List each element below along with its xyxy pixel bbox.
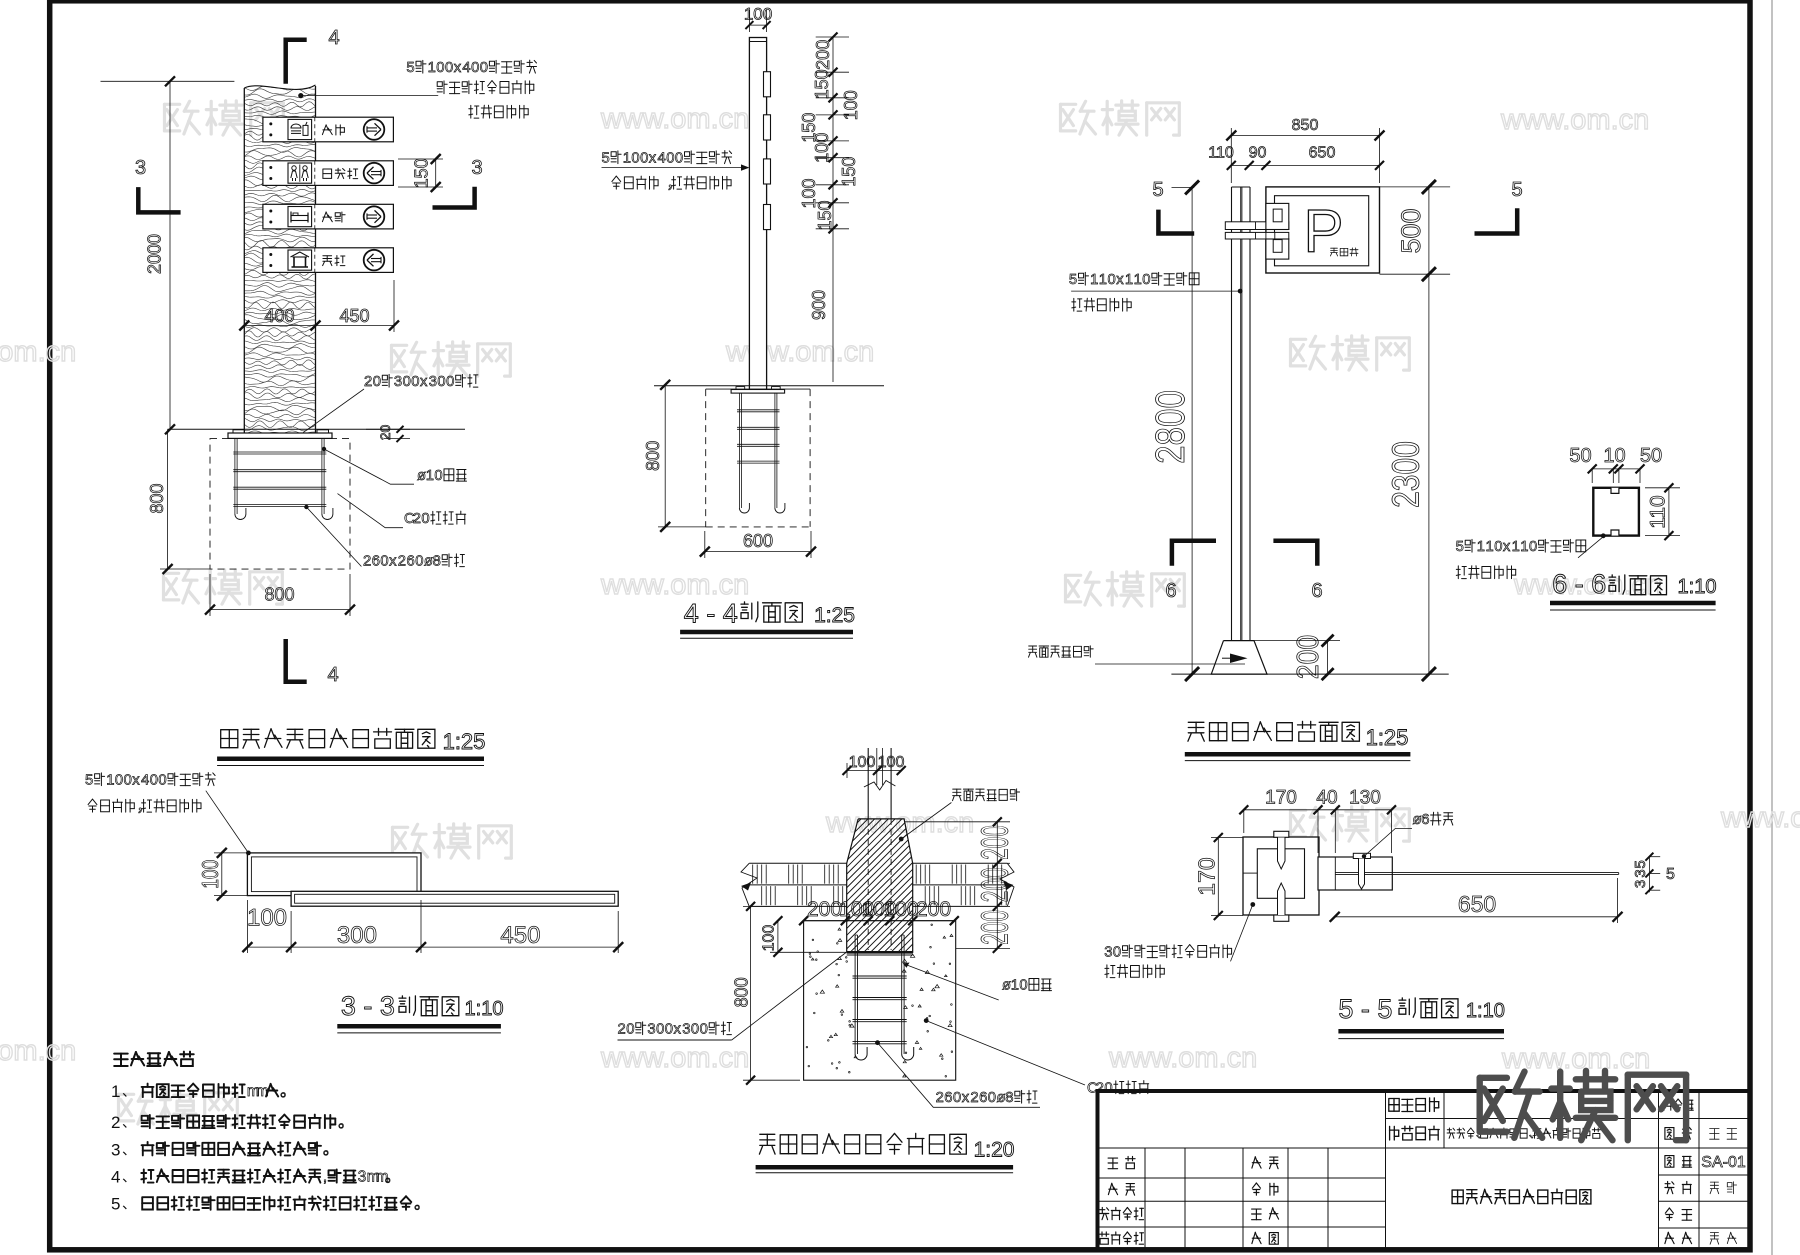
- svg-text:2800: 2800: [1147, 390, 1193, 464]
- label 烧面白麻基座 parking: [1029, 646, 1094, 657]
- title 停车标识牌立面图 1:25: [1188, 721, 1360, 741]
- leader note 20厚300x300钢板: [364, 374, 478, 390]
- svg-text:170: 170: [1265, 788, 1297, 809]
- tube notches: [1611, 488, 1619, 494]
- svg-text:150: 150: [815, 200, 835, 230]
- wood post (5厚100x400 galvanized steel square with wood-look paint): [243, 85, 317, 434]
- dim row 100 300 450 bottom 3-3: [247, 946, 618, 948]
- svg-text:1: 1: [1134, 272, 1142, 288]
- svg-text:5: 5: [1666, 866, 1675, 883]
- section mark 4 bottom: [286, 639, 307, 682]
- svg-text:0: 0: [1142, 272, 1150, 288]
- svg-text:0: 0: [1108, 272, 1116, 288]
- svg-text:ø: ø: [417, 468, 426, 484]
- ground line parking: [1171, 673, 1448, 675]
- svg-text:10: 10: [1603, 445, 1625, 467]
- svg-text:0: 0: [953, 1090, 961, 1106]
- svg-text:。: 。: [385, 1168, 400, 1185]
- svg-text:0: 0: [471, 60, 479, 76]
- svg-text:3: 3: [1104, 945, 1112, 961]
- foundation dashed outline 4-4: [706, 388, 810, 390]
- sign plate 4 (scenic area 景区, arrow left): [263, 248, 394, 273]
- svg-text:800: 800: [732, 977, 752, 1007]
- svg-text:1: 1: [106, 773, 114, 789]
- rebar cage 4-4: [738, 393, 740, 508]
- svg-text:、: 、: [122, 1141, 136, 1157]
- svg-text:400: 400: [264, 306, 294, 326]
- 3-3 steel tube section (double-line rect): [247, 853, 421, 896]
- svg-text:8: 8: [433, 554, 441, 570]
- svg-text:0: 0: [656, 1022, 664, 1038]
- svg-text:ø: ø: [997, 1090, 1006, 1106]
- svg-text:6: 6: [979, 1090, 987, 1106]
- section mark 4 top: [286, 40, 307, 84]
- svg-text:0: 0: [640, 151, 648, 167]
- svg-text:0: 0: [434, 468, 442, 484]
- svg-text:,: ,: [323, 1168, 327, 1185]
- svg-text:40: 40: [1316, 788, 1337, 809]
- P sign board inner: [1275, 196, 1369, 266]
- svg-text:ø: ø: [1413, 812, 1422, 828]
- svg-text:0: 0: [626, 1022, 634, 1038]
- dim 600 bottom 4-4: [705, 551, 811, 553]
- base steel plate 20厚300x300: [228, 433, 332, 438]
- svg-text:6: 6: [407, 554, 415, 570]
- dim 200 base height: [1327, 641, 1329, 675]
- svg-text:x: x: [454, 60, 462, 76]
- svg-text:200: 200: [807, 898, 842, 921]
- section mark 6 left: [1172, 541, 1216, 566]
- svg-text:6: 6: [372, 554, 380, 570]
- svg-text:1: 1: [111, 1082, 120, 1101]
- svg-text:1:25: 1:25: [443, 729, 486, 754]
- label 30厚镀锌钢板满焊连接 扫褐色油漆: [1104, 945, 1231, 961]
- svg-text:1:25: 1:25: [814, 604, 855, 627]
- svg-text:2: 2: [111, 1113, 120, 1132]
- svg-text:3: 3: [647, 1022, 655, 1038]
- svg-text:x: x: [132, 773, 140, 789]
- svg-text:2: 2: [398, 554, 406, 570]
- svg-text:0: 0: [446, 374, 454, 390]
- svg-text:6: 6: [944, 1090, 952, 1106]
- svg-text:0: 0: [124, 773, 132, 789]
- pole hidden dashed in base: [867, 819, 869, 950]
- svg-text:0: 0: [421, 511, 429, 527]
- svg-text:4-4: 4-4: [684, 599, 746, 629]
- svg-text:。: 。: [338, 1114, 353, 1131]
- svg-text:www.om.cn: www.om.cn: [0, 1035, 76, 1067]
- svg-text:600: 600: [743, 531, 773, 551]
- svg-text:100: 100: [744, 5, 772, 24]
- leader note: 5厚100x400镀锌钢方 满焊连接，扫褐色油漆: [602, 151, 732, 167]
- svg-text:0: 0: [1019, 978, 1027, 994]
- pavement hatch bands: [749, 862, 847, 864]
- svg-text:、: 、: [122, 1114, 136, 1130]
- base steel plate 20厚300x300 (foundation detail): [847, 951, 913, 954]
- drawing title 主要路段标识牌大样图: [1452, 1189, 1591, 1204]
- svg-text:0: 0: [1494, 539, 1502, 555]
- leader note: 5厚100x400镀锌钢方 镀锌钢板满焊连接 扫褐色油漆: [406, 60, 536, 76]
- svg-text:100: 100: [247, 905, 287, 932]
- svg-text:www.om.cn: www.om.cn: [1720, 802, 1800, 834]
- svg-text:0: 0: [1104, 1081, 1112, 1097]
- svg-text:x: x: [1116, 272, 1124, 288]
- svg-text:4: 4: [328, 27, 339, 49]
- svg-text:110: 110: [1646, 495, 1669, 528]
- dim 200 200 200 right stack: [996, 822, 998, 949]
- svg-text:5: 5: [111, 1195, 120, 1214]
- pole above foundation: [867, 748, 869, 819]
- svg-text:2: 2: [363, 554, 371, 570]
- svg-text:150: 150: [839, 157, 859, 187]
- svg-text:0: 0: [631, 151, 639, 167]
- svg-text:1: 1: [1099, 272, 1107, 288]
- sign plate 1 (restaurant 餐厅, arrow right): [263, 117, 394, 142]
- svg-text:5: 5: [1511, 179, 1522, 201]
- label 烧面白麻基座 (foundation): [953, 789, 1020, 801]
- svg-text:3: 3: [1632, 880, 1649, 888]
- svg-text:x: x: [1503, 539, 1511, 555]
- svg-text:2: 2: [364, 374, 372, 390]
- svg-text:0: 0: [415, 554, 423, 570]
- svg-text:50: 50: [1569, 445, 1591, 467]
- svg-text:1: 1: [1520, 539, 1528, 555]
- leader note 260x260ø8钢箍: [363, 554, 464, 570]
- dim 400 and 450: [244, 325, 394, 327]
- dim 800 bottom: [210, 609, 350, 611]
- svg-text:www.om.cn: www.om.cn: [600, 569, 749, 601]
- plate tabs seen edge-on: [764, 72, 771, 97]
- label C20混凝土 (foundation): [1087, 1081, 1149, 1097]
- svg-text:1:10: 1:10: [1466, 1000, 1505, 1022]
- svg-text:3: 3: [682, 1022, 690, 1038]
- svg-text:5: 5: [1456, 539, 1464, 555]
- svg-text:0: 0: [158, 773, 166, 789]
- 6-6 steel tube section square: [1593, 488, 1639, 536]
- svg-text:www.om.cn: www.om.cn: [0, 336, 76, 368]
- svg-text:0: 0: [480, 60, 488, 76]
- label ø10地脚 (foundation): [1002, 978, 1052, 994]
- svg-text:2: 2: [618, 1022, 626, 1038]
- section mark 6 right: [1273, 541, 1317, 566]
- title block right labels: [1663, 1099, 1693, 1110]
- svg-text:800: 800: [643, 441, 663, 471]
- svg-text:3: 3: [429, 374, 437, 390]
- granite base 烧面白麻基座: [1211, 641, 1267, 675]
- leader note 5厚100x400镀锌钢方 满焊连接，扫褐色油漆 (3-3): [85, 773, 215, 789]
- svg-text:0: 0: [437, 374, 445, 390]
- clamp top tab: [1274, 831, 1289, 837]
- sign plate 3 (hotel 旅馆, arrow right): [263, 204, 394, 229]
- svg-text:100: 100: [761, 925, 778, 952]
- svg-text:0: 0: [436, 60, 444, 76]
- dim 100 left (plate embed): [777, 921, 779, 953]
- section mark 3 left: [138, 187, 180, 212]
- svg-text:x: x: [420, 374, 428, 390]
- svg-text:、: 、: [122, 1196, 136, 1212]
- svg-text:1: 1: [1486, 539, 1494, 555]
- svg-text:5: 5: [406, 60, 414, 76]
- svg-text:0: 0: [403, 374, 411, 390]
- svg-text:0: 0: [665, 1022, 673, 1038]
- paper edge line right: [1771, 0, 1773, 1255]
- svg-text:5: 5: [85, 773, 93, 789]
- dim 850 top: [1231, 135, 1379, 137]
- svg-text:5: 5: [1632, 860, 1649, 868]
- svg-text:6: 6: [1311, 580, 1322, 602]
- svg-text:x: x: [389, 554, 397, 570]
- dim 100 100 top of foundation detail: [847, 770, 901, 772]
- svg-text:1: 1: [1125, 272, 1133, 288]
- svg-text:、: 、: [122, 1169, 136, 1185]
- svg-text:4: 4: [111, 1168, 120, 1187]
- svg-text:3: 3: [394, 374, 402, 390]
- svg-text:x: x: [649, 151, 657, 167]
- svg-text:8: 8: [1005, 1090, 1013, 1106]
- svg-text:1:25: 1:25: [1366, 725, 1409, 750]
- svg-text:。: 。: [323, 1141, 338, 1158]
- pipe break symbol: [864, 781, 896, 791]
- svg-text:900: 900: [809, 290, 829, 320]
- foundation dashed outline: [210, 439, 350, 569]
- dim 800 left foundation: [750, 906, 752, 1080]
- title block middle labels: [1389, 1098, 1439, 1112]
- svg-text:www.om.cn: www.om.cn: [1500, 104, 1649, 136]
- svg-text:0: 0: [150, 773, 158, 789]
- svg-text:1:10: 1:10: [465, 998, 504, 1020]
- label 260x260ø8钢箍 (foundation): [936, 1090, 1037, 1106]
- svg-text:0: 0: [411, 374, 419, 390]
- svg-text:3: 3: [358, 1168, 367, 1185]
- svg-text:3-3: 3-3: [341, 991, 403, 1021]
- title 停车标识牌基础大样图 1:20: [759, 1133, 966, 1154]
- concrete block C20: [804, 921, 956, 1080]
- leader note 5厚110x110镀锌钢管 扫褐色油漆 (6-6): [1456, 539, 1586, 555]
- svg-text:130: 130: [1349, 788, 1381, 809]
- svg-text:300: 300: [337, 922, 377, 949]
- svg-text:4: 4: [327, 664, 338, 686]
- section mark 3 right: [433, 187, 475, 208]
- svg-text:3: 3: [1632, 869, 1649, 877]
- svg-text:200: 200: [974, 825, 1016, 860]
- dim 500 and 2300 right: [1428, 187, 1430, 674]
- svg-text:200: 200: [916, 898, 951, 921]
- section 4-4 pole: [749, 38, 766, 390]
- svg-text:0: 0: [675, 151, 683, 167]
- dim 170 left 5-5: [1217, 838, 1219, 916]
- svg-text:www.om.cn: www.om.cn: [1108, 1042, 1257, 1074]
- right dimension chain: [832, 37, 834, 382]
- svg-text:200: 200: [974, 910, 1016, 945]
- svg-text:1:10: 1:10: [1678, 576, 1717, 598]
- svg-text:500: 500: [1396, 208, 1426, 253]
- bolt ø6: [1353, 853, 1370, 858]
- 5-5 clamp inner square: [1257, 849, 1304, 899]
- svg-text:、: 、: [122, 1083, 136, 1099]
- svg-text:。: 。: [414, 1196, 429, 1213]
- clamp plates crossing pole: [1225, 222, 1289, 230]
- clamp bottom tab: [1274, 915, 1289, 921]
- title block grid: [1100, 1147, 1386, 1149]
- svg-text:www.om.cn: www.om.cn: [600, 103, 749, 135]
- 5-5 right arm: [1318, 857, 1392, 890]
- svg-text:200: 200: [1291, 635, 1325, 679]
- svg-text:3: 3: [471, 157, 482, 179]
- svg-text:0: 0: [988, 1090, 996, 1106]
- svg-text:6: 6: [1421, 812, 1429, 828]
- svg-text:100: 100: [199, 860, 224, 889]
- svg-text:ø: ø: [1002, 978, 1011, 994]
- svg-text:100: 100: [841, 90, 861, 120]
- title block left labels: [1108, 1157, 1135, 1169]
- svg-text:5-5: 5-5: [1338, 994, 1400, 1024]
- svg-text:1: 1: [426, 468, 434, 484]
- svg-text:0: 0: [380, 554, 388, 570]
- svg-text:P: P: [1303, 198, 1343, 265]
- svg-text:x: x: [962, 1090, 970, 1106]
- dim 110 right: [1668, 488, 1670, 536]
- base plate 4-4: [731, 390, 785, 394]
- sign plate 2 (toilet 卫生间, arrow left): [263, 161, 394, 186]
- project name small bold text: [1447, 1127, 1600, 1140]
- P sign board outer: [1266, 187, 1380, 273]
- leader note 5厚110x110镀锌钢管 扫褐色油漆: [1069, 272, 1199, 288]
- dim 2800 left: [1191, 187, 1193, 674]
- svg-text:0: 0: [445, 60, 453, 76]
- svg-text:1: 1: [428, 60, 436, 76]
- svg-text:200: 200: [974, 867, 1016, 902]
- label ø6螺丝: [1413, 812, 1453, 828]
- svg-text:6: 6: [1165, 580, 1176, 602]
- svg-text:2: 2: [936, 1090, 944, 1106]
- svg-text:100: 100: [849, 754, 876, 771]
- 停车场 small text: [1330, 248, 1358, 256]
- sign blade (650 long): [1335, 872, 1618, 874]
- dim 800 vertical left: [167, 429, 169, 569]
- svg-text:0: 0: [700, 1022, 708, 1038]
- svg-text:1: 1: [1011, 978, 1019, 994]
- svg-text:4: 4: [141, 773, 149, 789]
- dim 170 40 130 top 5-5: [1244, 809, 1392, 811]
- dim 100 left 3-3: [221, 853, 223, 896]
- rebar cage foundation detail: [854, 935, 856, 1054]
- small dims 3 5 5 right of blade: [1648, 856, 1650, 893]
- svg-text:850: 850: [1292, 117, 1319, 134]
- svg-text:4: 4: [462, 60, 470, 76]
- svg-text:5: 5: [1069, 272, 1077, 288]
- label 20厚300x300钢板 (foundation left): [618, 1022, 732, 1038]
- svg-text:150: 150: [412, 158, 432, 188]
- svg-text:800: 800: [264, 585, 294, 605]
- svg-text:50: 50: [1640, 445, 1662, 467]
- 3-3 sign blade section: [291, 891, 618, 906]
- svg-text:650: 650: [1309, 145, 1336, 162]
- title 主要路段标识牌立面图 1:25: [221, 728, 435, 748]
- svg-text:800: 800: [147, 483, 167, 513]
- svg-text:3: 3: [111, 1140, 120, 1159]
- svg-text:110: 110: [1208, 145, 1234, 162]
- dim 800 left 4-4: [664, 385, 666, 527]
- svg-text:0: 0: [115, 773, 123, 789]
- big dark watermark 欧模网: [1480, 1071, 1686, 1140]
- dim 110 90 650 row: [1231, 164, 1379, 166]
- svg-text:90: 90: [1249, 145, 1267, 162]
- svg-text:3: 3: [135, 157, 146, 179]
- svg-text:www.om.cn: www.om.cn: [725, 336, 874, 368]
- svg-text:2000: 2000: [144, 234, 164, 274]
- svg-text:0: 0: [1529, 539, 1537, 555]
- svg-text:0: 0: [373, 374, 381, 390]
- svg-text:100: 100: [878, 754, 905, 771]
- svg-text:150: 150: [812, 69, 832, 99]
- svg-text:450: 450: [500, 922, 540, 949]
- design notes 设计说明: [114, 1052, 194, 1066]
- bracket hooks: [1266, 203, 1289, 229]
- leader note C20混凝土: [404, 511, 466, 527]
- svg-text:5: 5: [602, 151, 610, 167]
- dim row 200 100 100 100 200: [804, 920, 955, 922]
- svg-text:www.om.cn: www.om.cn: [600, 1042, 749, 1074]
- ground line 4-4: [654, 385, 884, 387]
- svg-text:2300: 2300: [1385, 441, 1427, 508]
- svg-text:5: 5: [1152, 179, 1163, 201]
- svg-text:170: 170: [1194, 857, 1220, 895]
- svg-text:2: 2: [413, 511, 421, 527]
- svg-text:1:20: 1:20: [974, 1139, 1015, 1162]
- svg-text:1: 1: [1477, 539, 1485, 555]
- svg-text:200: 200: [813, 40, 833, 70]
- svg-text:。: 。: [280, 1083, 295, 1100]
- svg-text:0: 0: [666, 151, 674, 167]
- parking sign pole: [1231, 187, 1233, 641]
- dim 650 bottom 5-5: [1335, 916, 1618, 918]
- 5-5 clamp outer square: [1243, 837, 1319, 915]
- ground line: [168, 428, 465, 430]
- leader note ø10地脚: [417, 468, 467, 484]
- svg-text:0: 0: [691, 1022, 699, 1038]
- dim 150 plate height: [435, 159, 437, 187]
- dim 20 base plate thickness: [366, 428, 410, 430]
- pavement break arrows: [741, 863, 757, 906]
- svg-text:SA-01: SA-01: [1701, 1154, 1746, 1171]
- svg-text:2: 2: [970, 1090, 978, 1106]
- svg-text:1: 1: [1090, 272, 1098, 288]
- svg-text:x: x: [674, 1022, 682, 1038]
- dim 50 10 50: [1592, 468, 1640, 470]
- svg-text:100: 100: [883, 898, 918, 921]
- dim 100 pole width top: [749, 24, 766, 26]
- svg-text:ø: ø: [424, 554, 433, 570]
- svg-text:1: 1: [623, 151, 631, 167]
- svg-text:4: 4: [658, 151, 666, 167]
- svg-text:450: 450: [339, 306, 369, 326]
- title block outer border: [1098, 1091, 1751, 1250]
- svg-text:20: 20: [377, 425, 393, 441]
- clamp slots: [1278, 838, 1286, 870]
- anchor rebar cage: [234, 439, 236, 515]
- svg-text:1: 1: [1512, 539, 1520, 555]
- svg-text:6-6: 6-6: [1552, 569, 1614, 599]
- dim 2000 left: [101, 80, 235, 82]
- svg-text:0: 0: [1113, 945, 1121, 961]
- svg-text:100: 100: [812, 133, 832, 163]
- svg-text:650: 650: [1458, 891, 1496, 917]
